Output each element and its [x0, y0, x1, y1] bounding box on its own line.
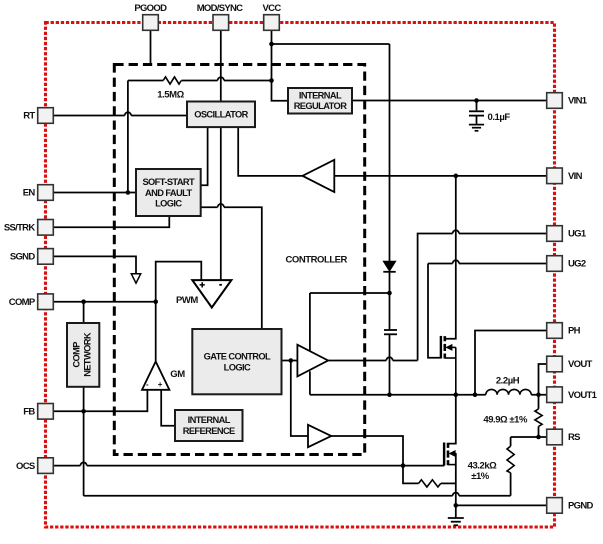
svg-text:2.2µH: 2.2µH — [496, 376, 520, 387]
svg-text:OSCILLATOR: OSCILLATOR — [194, 110, 248, 120]
resistor gate-source zigzag — [419, 480, 441, 487]
wire gate node to gate-source resistor — [403, 466, 419, 484]
wire PGOOD stub to controller box — [150, 31, 152, 64]
IC package boundary (red dotted) — [46, 23, 555, 528]
resistor 1.5M zigzag — [163, 77, 181, 84]
pin UG2 — [547, 256, 586, 272]
svg-text:OCS: OCS — [16, 461, 35, 472]
wire UG2 pin to Q1 gate with hop — [428, 264, 547, 358]
wire PGND node to PGND pin — [456, 504, 547, 506]
op-amp GM error amplifier — [142, 362, 169, 390]
svg-text:VIN1: VIN1 — [568, 96, 588, 107]
hop soft-start wire over ramp line — [218, 204, 224, 207]
wire EN to soft-start — [54, 192, 137, 194]
capacitor C1 0.1uF — [469, 111, 484, 115]
svg-text:PGOOD: PGOOD — [134, 3, 167, 14]
pin PGND — [547, 498, 594, 514]
wire bootstrap vertical mid — [389, 272, 391, 329]
svg-text:RS: RS — [568, 432, 580, 443]
pin UG1 — [547, 226, 587, 242]
svg-text:49.9Ω ±1%: 49.9Ω ±1% — [483, 414, 528, 425]
wire RT to oscillator with hop — [54, 115, 188, 117]
wire internal regulator to VIN1 pin — [352, 100, 547, 102]
pin SS/TRK — [4, 220, 53, 236]
wire bootstrap vertical lower — [389, 335, 391, 395]
hop UG1 wire over drain line — [453, 230, 459, 233]
wire oscillator to VIN buffer — [238, 127, 302, 176]
wire VCC branch to bootstrap rail — [272, 43, 390, 45]
driver low-side (points right) — [308, 425, 331, 447]
wire gate control logic to high driver — [282, 360, 298, 362]
controller dashed boundary — [114, 65, 364, 455]
svg-text:COMP: COMP — [72, 342, 82, 368]
svg-text:GATE CONTROL: GATE CONTROL — [204, 351, 271, 361]
transistor Q1 high-side MOSFET — [441, 336, 456, 395]
wire buffer output to VIN pin — [334, 175, 546, 177]
block internal reference — [175, 410, 243, 441]
pin PGOOD — [134, 3, 167, 30]
wire 1.5M right segment with hop at MOD/SYNC line — [181, 80, 271, 82]
wire FB node down to divider line — [83, 411, 85, 496]
svg-text:0.1µF: 0.1µF — [488, 112, 511, 123]
wire 43.2k leads — [510, 437, 512, 496]
wire gate control node down to low driver — [291, 361, 308, 437]
wire 49.9 ohm leads — [538, 395, 540, 437]
wire gate node to Q2 gate — [403, 465, 444, 467]
wire PH pin branch — [475, 331, 547, 395]
wire VIN node down to Q1 drain — [445, 176, 456, 339]
pin COMP — [9, 294, 54, 310]
svg-text:+: + — [158, 380, 163, 389]
hop 1.5M wire over MOD/SYNC line — [218, 77, 224, 80]
wire GM output up to COMP node — [155, 302, 157, 362]
svg-text:AND FAULT: AND FAULT — [145, 188, 193, 198]
wire PH rail — [310, 394, 547, 396]
wire FB to GM inverting input — [54, 390, 148, 412]
pin FB — [23, 404, 53, 420]
wire 0.1uF cap leads — [476, 101, 478, 124]
inductor L1 2.2uH — [486, 389, 531, 394]
wire COMP to PWM/GM node — [54, 301, 156, 303]
wire RS pin wire — [511, 436, 547, 438]
block comp network — [67, 323, 99, 387]
wire oscillator to soft-start right side — [201, 127, 208, 185]
pin MOD/SYNC — [197, 3, 243, 30]
pin VIN — [547, 168, 583, 184]
hop RT wire over EN riser — [125, 112, 131, 115]
svg-text:VIN: VIN — [568, 171, 583, 182]
pin OCS — [16, 458, 53, 474]
wire internal reference to GM non-inverting input — [161, 390, 175, 426]
wire UG1 riser and pin wire with hop — [418, 234, 547, 361]
pin PH — [547, 323, 581, 339]
pin VCC — [263, 3, 282, 30]
svg-text:VOUT1: VOUT1 — [568, 390, 598, 401]
wire SGND to signal ground arrow — [54, 256, 137, 273]
wire ground stub — [455, 505, 457, 517]
wire EN vertical from 1.5M to EN node — [127, 81, 129, 193]
pin RT — [23, 108, 53, 124]
pin VOUT1 — [547, 387, 598, 403]
signal ground arrow (SGND) — [131, 274, 140, 283]
svg-text:REFERENCE: REFERENCE — [183, 426, 235, 436]
svg-text:UG1: UG1 — [568, 229, 587, 240]
power ground symbol — [448, 518, 464, 525]
svg-text:PWM: PWM — [176, 295, 198, 306]
wire 1.5M left segment — [128, 80, 163, 82]
hop divider line over source line — [453, 493, 459, 496]
block gate control logic — [192, 329, 281, 394]
svg-text:REGULATOR: REGULATOR — [294, 101, 348, 111]
transistor Q2 low-side MOSFET — [444, 443, 456, 466]
wire COMP to comp network top — [83, 302, 85, 323]
hop UG2 wire over drain line — [453, 260, 459, 263]
buffer to VIN (points left) — [303, 160, 335, 192]
svg-text:MOD/SYNC: MOD/SYNC — [197, 3, 243, 14]
hop OCS wire over FB riser — [80, 462, 86, 465]
svg-text:LOGIC: LOGIC — [224, 362, 251, 372]
block soft-start and fault logic — [136, 169, 201, 216]
wire FB divider line A with hop at source line — [84, 495, 511, 497]
svg-text:1.5MΩ: 1.5MΩ — [157, 90, 184, 101]
svg-text:-: - — [146, 380, 149, 389]
svg-text:EN: EN — [23, 188, 36, 199]
diode D1 bootstrap — [383, 261, 395, 272]
block oscillator — [187, 102, 255, 128]
wire Q2 source down to PGND node — [455, 453, 457, 505]
wire oscillator ramp to PWM comparator right input — [220, 127, 222, 280]
svg-text:INTERNAL: INTERNAL — [299, 91, 342, 101]
pin VOUT — [547, 356, 593, 372]
hop driver wire over bootstrap line — [386, 357, 392, 360]
driver high-side (points right) — [297, 345, 328, 377]
svg-text:GM: GM — [170, 369, 185, 380]
wire SS/TRK to soft-start bottom — [54, 216, 170, 227]
svg-text:PH: PH — [568, 326, 581, 337]
svg-text:SS/TRK: SS/TRK — [4, 223, 35, 234]
pin VIN1 — [547, 93, 588, 109]
svg-text:VCC: VCC — [263, 3, 282, 14]
pin RS — [547, 429, 580, 445]
svg-text:FB: FB — [23, 407, 35, 418]
svg-text:±1%: ±1% — [471, 471, 490, 482]
wire MOD/SYNC to oscillator top — [220, 31, 222, 102]
svg-text:SOFT-START: SOFT-START — [142, 177, 195, 187]
wire Q2 drain from PH rail — [449, 395, 456, 444]
svg-text:SGND: SGND — [10, 252, 35, 263]
svg-text:UG2: UG2 — [568, 259, 586, 270]
svg-text:PGND: PGND — [568, 501, 593, 512]
wire low driver output to gate node — [331, 436, 403, 466]
svg-text:VOUT: VOUT — [568, 359, 592, 370]
wire bootstrap node to high driver top — [310, 293, 390, 351]
pin EN — [23, 185, 54, 201]
svg-text:LOGIC: LOGIC — [155, 199, 182, 209]
wire high driver output to UG1 riser with hop over bootstrap — [328, 360, 418, 362]
svg-text:CONTROLLER: CONTROLLER — [286, 255, 348, 266]
svg-text:INTERNAL: INTERNAL — [188, 415, 231, 425]
pin SGND — [10, 249, 53, 265]
wire bootstrap vertical upper — [389, 44, 391, 261]
wire COMP node to PWM comparator left input — [156, 262, 202, 302]
ground for 0.1uF cap — [469, 125, 484, 131]
svg-text:COMP: COMP — [9, 297, 36, 308]
wire VOUT pin branch — [539, 364, 547, 395]
wire soft-start to gate control logic with hop — [201, 207, 262, 329]
svg-text:NETWORK: NETWORK — [83, 332, 93, 377]
resistor 49.9 ohm zigzag — [535, 409, 542, 427]
block internal regulator — [288, 88, 352, 114]
svg-text:RT: RT — [23, 111, 35, 122]
capacitor bootstrap — [384, 330, 397, 334]
wire VCC down to internal regulator — [272, 31, 289, 101]
op-amp PWM comparator — [192, 280, 231, 307]
resistor 43.2k zigzag — [507, 446, 514, 473]
wire gate-source resistor to source — [441, 482, 456, 484]
wire high driver bottom to PH rail — [309, 371, 311, 394]
wire comp network bottom to FB — [83, 387, 85, 412]
wire OCS to low gate node with hop — [54, 465, 404, 467]
